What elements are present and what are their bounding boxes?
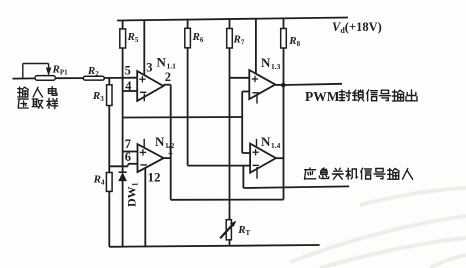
wire emergency shutdown input line [243,186,349,188]
wire inverting input N1.4 from R6 [188,165,251,167]
text input voltage sampling label [18,87,58,109]
svg-text:Vd(+18V): Vd(+18V) [332,20,382,35]
text PWM blocking signal output [305,89,417,104]
zener diode DW1 [119,172,140,246]
svg-text:N: N [261,55,271,70]
pin 4 label N1.1 [125,79,132,93]
wire output column R8 to wired-or [283,85,285,199]
wire reference bus [123,116,243,119]
node Vd +18V supply label [332,20,382,35]
wire pin12 ground stub N1.2 [144,168,146,246]
svg-text:R3: R3 [92,90,104,103]
designator N1.4 [261,134,281,150]
svg-text:1.4: 1.4 [271,141,281,150]
wire ground bottom rail [109,240,319,247]
wire +18V top supply rail [117,18,348,21]
designator N1.2 [155,134,175,150]
svg-text:R6: R6 [192,31,204,44]
decorative watermark (not labelled as component) [290,188,466,268]
svg-text:3: 3 [146,61,152,75]
wire pin7 input N1.2 [123,151,138,153]
resistor R4 [93,173,113,247]
pin 6 label N1.2 [125,150,131,164]
svg-text:N: N [157,55,167,70]
wire input line [13,77,138,80]
svg-text:PWM: PWM [305,89,340,104]
potentiometer RP1 [23,64,68,81]
svg-text:12: 12 [148,170,161,185]
wire output N1.4 [276,157,284,159]
svg-text:R7: R7 [233,34,245,47]
resistor R5 [120,20,139,172]
wire output N1.1 [163,85,170,200]
svg-text:2: 2 [165,70,171,84]
resistor R7 [227,19,245,220]
wire pin4 input N1.1 [123,90,138,92]
svg-text:1.3: 1.3 [271,62,281,71]
node output junction N1.3 [275,83,285,88]
svg-text:R5: R5 [127,31,139,44]
svg-text:R8: R8 [288,35,300,48]
designator N1.3 [261,55,281,71]
pin 5 label N1.1 [125,63,131,77]
svg-text:RT: RT [237,224,250,237]
svg-text:R2: R2 [87,65,99,78]
svg-text:5: 5 [125,63,131,77]
op-amp N1.4 [250,139,276,179]
op-amp N1.3 [249,70,275,104]
designator N1.1 [157,55,177,71]
resistor R8 [281,18,301,85]
wire pin6 input from R3 R4 divider [109,164,137,167]
pin 1 label N1.2 [167,143,173,157]
wire pin3 power stub N1.3 [255,19,257,74]
resistor R2 [83,65,104,80]
wire wired-or bottom link [171,199,284,201]
svg-text:N: N [261,134,271,149]
op-amp N1.1 [137,71,163,101]
resistor R3 [92,78,112,173]
resistor R6 [185,20,204,166]
svg-text:DW1: DW1 [125,182,140,207]
svg-text:1: 1 [167,143,173,157]
svg-text:7: 7 [125,137,131,151]
svg-text:N: N [155,134,165,149]
svg-text:R4: R4 [93,174,105,187]
text emergency shutdown signal input [305,168,413,179]
op-amp N1.2 [138,139,164,172]
wire PWM output line [284,84,343,85]
thermistor RT [220,220,250,240]
wire inverting input N1.3 [242,92,249,154]
pin 2 label N1.1 [165,70,171,84]
pin 7 label N1.2 [125,137,131,151]
wire noninverting input N1.3 from R7 [230,77,250,79]
wire pin3 power stub N1.1 [143,20,145,76]
wire hysteresis jog to emergency line [242,166,244,188]
wire noninverting input N1.4 [242,152,250,154]
pin 12 label N1.2 [148,170,161,185]
wire output N1.2 [164,157,171,159]
pin 3 label N1.1 [146,61,152,75]
svg-text:RP1: RP1 [52,64,69,77]
